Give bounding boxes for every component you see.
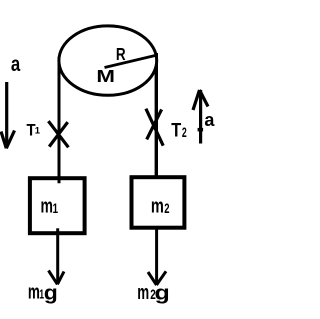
svg-text:1: 1 bbox=[53, 200, 59, 216]
wire: right rope from pulley to block m2 bbox=[155, 53, 158, 176]
svg-text:g: g bbox=[44, 281, 58, 304]
label M bbox=[96, 67, 115, 87]
pulley M (disc of radius R) bbox=[59, 26, 157, 95]
svg-text:2: 2 bbox=[182, 126, 187, 140]
label m2 bbox=[151, 194, 164, 217]
svg-text:2: 2 bbox=[164, 200, 170, 216]
label a (left) bbox=[11, 53, 21, 76]
label T1 bbox=[27, 122, 36, 140]
label a (right) bbox=[204, 110, 215, 130]
block m1 bbox=[30, 178, 85, 233]
radius line R bbox=[105, 56, 156, 68]
svg-text:1: 1 bbox=[35, 126, 41, 137]
label R bbox=[116, 45, 126, 64]
cut mark X on left rope (tension T1) bbox=[48, 121, 68, 147]
svg-text:T: T bbox=[171, 119, 181, 140]
weight arrow m1g (down from block m1) bbox=[49, 228, 65, 284]
svg-text:m: m bbox=[41, 194, 53, 217]
svg-text:R: R bbox=[116, 45, 126, 64]
arrow a (left, downward acceleration) bbox=[1, 82, 15, 148]
svg-text:M: M bbox=[96, 67, 115, 87]
label m1 bbox=[41, 194, 53, 217]
svg-text:m: m bbox=[137, 281, 149, 303]
cut mark X on right rope (tension T2) bbox=[146, 109, 163, 146]
svg-text:g: g bbox=[155, 282, 170, 304]
wire: left rope from pulley to block m1 bbox=[58, 57, 61, 183]
block m2 bbox=[132, 177, 185, 228]
arrow a (right, upward acceleration) bbox=[193, 90, 208, 144]
svg-text:a: a bbox=[204, 110, 215, 130]
weight arrow m2g (down from block m2) bbox=[148, 226, 166, 285]
label T2 bbox=[171, 119, 181, 140]
svg-text:a: a bbox=[11, 53, 21, 76]
svg-text:m: m bbox=[28, 281, 40, 303]
label m1g bbox=[28, 281, 40, 303]
label m2g bbox=[137, 281, 149, 303]
svg-text:m: m bbox=[151, 194, 164, 217]
